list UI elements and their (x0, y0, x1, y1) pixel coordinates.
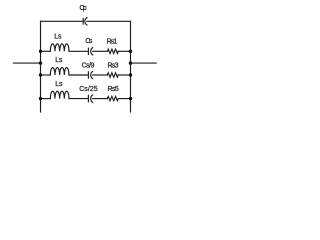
svg-text:Rs1: Rs1 (107, 38, 118, 45)
svg-text:Cs: Cs (85, 38, 93, 45)
svg-text:Cp: Cp (79, 5, 86, 12)
svg-text:Ls: Ls (55, 57, 63, 64)
svg-text:Rs5: Rs5 (108, 86, 119, 93)
svg-text:Cs/9: Cs/9 (82, 62, 95, 69)
svg-text:Ls: Ls (55, 81, 63, 88)
svg-text:Cs/25: Cs/25 (79, 86, 98, 93)
svg-text:Ls: Ls (54, 34, 62, 41)
svg-text:Rs3: Rs3 (108, 63, 119, 70)
